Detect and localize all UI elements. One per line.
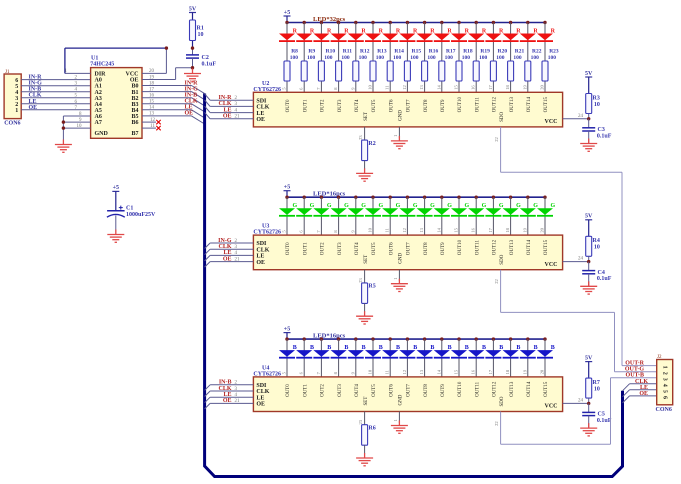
LED U3 row D6 (G) (382, 196, 400, 236)
svg-text:R16: R16 (429, 48, 439, 54)
svg-text:LED*16pcs: LED*16pcs (313, 191, 346, 198)
bus main (left vertical, bottom, right vertical) (205, 94, 623, 477)
svg-text:R12: R12 (360, 48, 370, 54)
svg-text:15: 15 (149, 100, 155, 105)
resistor R18 100 (456, 48, 473, 81)
svg-text:+5: +5 (284, 185, 290, 191)
LED U4 row D2 (B) (313, 337, 331, 377)
junction rail tap 8 (423, 337, 426, 340)
junction U2 VCC (587, 117, 590, 120)
svg-text:GND: GND (399, 110, 404, 121)
svg-text:OUT3: OUT3 (338, 99, 343, 112)
svg-text:10: 10 (368, 85, 373, 90)
svg-text:CLK: CLK (256, 105, 269, 111)
junction rail tap 12 (492, 21, 495, 24)
svg-text:100: 100 (462, 55, 471, 61)
svg-text:0.1uF: 0.1uF (597, 276, 612, 282)
svg-text:100: 100 (341, 55, 350, 61)
svg-text:OE: OE (639, 391, 648, 397)
svg-text:14: 14 (436, 85, 441, 90)
svg-text:24: 24 (578, 398, 584, 403)
wire U3 pin24 VCC (563, 257, 589, 262)
svg-text:100: 100 (307, 55, 316, 61)
svg-text:R15: R15 (412, 48, 422, 54)
svg-text:VCC: VCC (126, 72, 139, 78)
svg-text:A6: A6 (95, 114, 102, 120)
LED U2 row D11 (R) (468, 21, 487, 93)
resistor R9 100 (301, 48, 315, 81)
junction rail tap 9 (440, 337, 443, 340)
svg-text:24: 24 (578, 114, 584, 119)
wire U1 pin20 VCC to 5V rail (142, 48, 166, 74)
power +5 (C1) (112, 185, 119, 211)
svg-text:IN-G: IN-G (185, 86, 199, 92)
LED U3 row D13 (G) (503, 196, 521, 236)
svg-text:OUT0: OUT0 (286, 242, 291, 255)
svg-text:OUT13: OUT13 (510, 97, 515, 113)
wire U3 pin 21 OE branch from bus (205, 256, 254, 267)
resistor R21 100 (508, 48, 525, 81)
wire U3 SDO 22 to OUT-G (494, 270, 657, 372)
svg-text:OUT7: OUT7 (407, 99, 412, 112)
svg-text:A1: A1 (95, 84, 102, 90)
svg-text:B: B (516, 345, 520, 351)
svg-text:3: 3 (15, 96, 18, 102)
ground U2 GND (391, 136, 408, 149)
junction rail tap 13 (509, 337, 512, 340)
LED U2 row D12 (R) (485, 21, 504, 93)
svg-text:OE: OE (223, 256, 232, 262)
svg-text:11: 11 (385, 85, 390, 89)
svg-text:B: B (310, 345, 314, 351)
svg-text:R20: R20 (498, 48, 508, 54)
svg-text:21: 21 (235, 257, 241, 262)
svg-text:100: 100 (393, 55, 402, 61)
junction rail tap 0 (285, 21, 288, 24)
svg-text:19: 19 (149, 75, 155, 80)
svg-text:LE: LE (256, 111, 264, 117)
wire U1 pin1 DIR to 5V rail (65, 48, 167, 74)
resistor R4 10 (586, 236, 600, 261)
svg-text:B5: B5 (131, 114, 138, 120)
svg-text:B6: B6 (131, 120, 138, 126)
svg-text:SDI: SDI (256, 98, 267, 104)
svg-text:OUT6: OUT6 (389, 384, 394, 397)
junction rail tap 3 (337, 21, 340, 24)
svg-text:1000uF25V: 1000uF25V (126, 212, 156, 218)
svg-text:OUT7: OUT7 (407, 242, 412, 255)
svg-text:13: 13 (419, 85, 424, 90)
svg-text:OUT8: OUT8 (424, 99, 429, 112)
svg-text:CLK: CLK (218, 101, 231, 107)
ground C5 (580, 423, 597, 436)
svg-text:R: R (551, 29, 556, 35)
LED U3 row D5 (G) (365, 196, 383, 236)
pin U1 12 B6 no-connect (142, 118, 161, 124)
power +5 rail U3 section (284, 185, 546, 198)
wire U1 pin8 A6 to ground (63, 112, 90, 117)
junction rail tap 4 (354, 337, 357, 340)
svg-text:CLK: CLK (218, 386, 231, 392)
wire U1 pin17 B1 net IN-G to bus (142, 86, 205, 99)
svg-text:+5: +5 (284, 326, 290, 332)
LED U2 row D7 (R) (399, 21, 418, 93)
wire net IN-B (CON6 pin 4 to U1 pin 4) (21, 87, 90, 93)
svg-text:B: B (344, 345, 348, 351)
LED U4 row D8 (B) (417, 337, 435, 377)
svg-text:SDO: SDO (500, 112, 505, 122)
junction rail tap 12 (492, 337, 495, 340)
svg-text:22: 22 (494, 279, 499, 284)
svg-text:6: 6 (662, 396, 668, 399)
svg-text:0.1uF: 0.1uF (597, 418, 612, 424)
svg-text:R7: R7 (593, 380, 600, 386)
svg-text:C5: C5 (598, 412, 605, 418)
svg-text:LE: LE (185, 105, 193, 111)
svg-text:12: 12 (150, 118, 156, 123)
svg-text:SET: SET (364, 112, 369, 121)
svg-text:74HC245: 74HC245 (90, 62, 114, 68)
svg-text:18: 18 (505, 369, 510, 374)
svg-text:1: 1 (15, 108, 18, 114)
capacitor C4 0.1uF (582, 262, 612, 287)
svg-text:OUT10: OUT10 (458, 381, 463, 397)
svg-text:20: 20 (540, 369, 545, 374)
svg-text:10: 10 (368, 227, 373, 232)
svg-text:OUT12: OUT12 (493, 97, 498, 113)
svg-text:R22: R22 (532, 48, 542, 54)
ground U4 GND (391, 421, 408, 434)
wire U1 pin13 B5 net OE to bus (142, 111, 205, 124)
svg-text:B2: B2 (131, 96, 138, 102)
svg-text:OUT6: OUT6 (389, 99, 394, 112)
svg-text:R14: R14 (394, 48, 404, 54)
svg-text:CLK: CLK (635, 379, 648, 385)
wire CLK branch bus to J2 (623, 384, 657, 391)
junction U1 pin10 (62, 126, 65, 129)
LED U2 row D1 (R) (296, 21, 315, 93)
wire net OE (CON6 pin 1 to U1 pin 7) (21, 105, 90, 111)
capacitor C1 1000uF25V (polarized) (107, 206, 156, 230)
svg-text:2: 2 (662, 372, 668, 375)
junction rail tap 15 (543, 21, 546, 24)
svg-text:DIR: DIR (95, 72, 107, 78)
svg-text:OUT8: OUT8 (424, 242, 429, 255)
svg-text:10: 10 (594, 102, 600, 108)
junction R1/C2 (191, 46, 194, 55)
svg-text:R18: R18 (463, 48, 473, 54)
svg-text:100: 100 (445, 55, 454, 61)
ground R5 (356, 311, 373, 324)
junction rail tap 2 (320, 21, 323, 24)
svg-text:23: 23 (358, 135, 363, 140)
svg-text:OUT4: OUT4 (355, 242, 360, 255)
svg-text:5V: 5V (585, 214, 593, 220)
svg-text:16: 16 (471, 227, 476, 232)
LED U4 row D13 (B) (503, 337, 521, 377)
svg-text:22: 22 (494, 421, 499, 426)
svg-text:+5: +5 (284, 10, 290, 16)
svg-text:5V: 5V (585, 71, 593, 77)
svg-text:OUT0: OUT0 (286, 384, 291, 397)
resistor R7 10 (586, 378, 600, 403)
svg-text:B: B (551, 345, 555, 351)
resistor R10 100 (318, 48, 335, 81)
svg-text:20: 20 (540, 85, 545, 90)
connector J1 CON6 (4, 70, 21, 127)
capacitor C5 0.1uF (582, 403, 612, 428)
svg-text:OUT3: OUT3 (338, 384, 343, 397)
svg-text:B: B (534, 345, 538, 351)
svg-text:IN-B: IN-B (219, 380, 232, 386)
svg-text:CON6: CON6 (656, 407, 672, 413)
svg-text:10: 10 (77, 124, 83, 129)
svg-text:R6: R6 (368, 426, 375, 432)
power 5V (R1) (189, 6, 197, 20)
junction rail tap 7 (406, 21, 409, 24)
svg-text:OUT15: OUT15 (544, 381, 549, 397)
svg-text:OUT10: OUT10 (458, 239, 463, 255)
svg-text:100: 100 (290, 55, 299, 61)
LED U2 row D6 (R) (382, 21, 401, 93)
svg-text:SDO: SDO (500, 396, 505, 406)
wire LE branch bus to J2 (623, 390, 657, 397)
svg-text:10: 10 (198, 32, 204, 38)
power +5 rail U4 section (284, 326, 546, 339)
LED U4 row D6 (B) (382, 337, 400, 377)
resistor R2 (SET) (362, 140, 376, 169)
svg-text:R1: R1 (197, 26, 204, 32)
svg-text:OUT9: OUT9 (441, 99, 446, 112)
wire U2 pin 21 OE branch from bus (205, 112, 254, 119)
junction rail tap 2 (320, 337, 323, 340)
svg-text:G: G (550, 203, 555, 209)
svg-text:OUT13: OUT13 (510, 381, 515, 397)
LED U2 row D5 (R) (365, 21, 384, 93)
junction rail tap 14 (526, 337, 529, 340)
LED U2 row D10 (R) (451, 21, 470, 93)
LED U2 row D4 (R) (348, 21, 367, 93)
svg-text:LED*32pcs: LED*32pcs (313, 16, 346, 23)
svg-text:R10: R10 (326, 48, 336, 54)
resistor R12 100 (353, 48, 370, 81)
svg-text:1: 1 (393, 135, 398, 137)
svg-text:18: 18 (149, 81, 155, 86)
svg-text:100: 100 (513, 55, 522, 61)
wire U4 pin 3 CLK branch from bus (205, 386, 254, 397)
svg-text:17: 17 (488, 369, 493, 374)
svg-text:19: 19 (522, 369, 527, 374)
op U3 CYT62726 LED driver (253, 224, 562, 270)
op U4 CYT62726 LED driver (253, 365, 562, 411)
wire U1 pin19 OE to ground net (142, 68, 193, 81)
LED U2 row D2 (R) (313, 21, 332, 93)
ground U1 (55, 140, 72, 153)
svg-text:OE: OE (185, 111, 194, 117)
LED U4 row D4 (B) (348, 337, 366, 377)
wire U2 SDO 22 to OUT-R (494, 127, 657, 366)
resistor R17 100 (439, 48, 456, 81)
svg-text:B: B (482, 345, 486, 351)
svg-text:OUT14: OUT14 (527, 239, 532, 255)
svg-text:LE: LE (640, 385, 648, 391)
svg-text:OUT3: OUT3 (338, 242, 343, 255)
svg-text:R3: R3 (593, 95, 600, 101)
LED U2 row D3 (R) (331, 21, 350, 93)
wire U1 pin16 B2 net IN-B to bus (142, 93, 205, 106)
junction rail tap 15 (543, 196, 546, 199)
power 5V (R3) (585, 71, 593, 94)
capacitor C2 0.1uF (186, 55, 216, 68)
LED U2 row D0 (R) (279, 21, 298, 93)
junction rail tap 6 (389, 196, 392, 199)
svg-text:11: 11 (385, 228, 390, 232)
svg-text:B0: B0 (131, 84, 138, 90)
svg-text:C1: C1 (126, 206, 133, 212)
svg-text:OUT11: OUT11 (475, 97, 480, 113)
ground R6 (356, 453, 373, 466)
junction rail tap 11 (475, 21, 478, 24)
LED U2 row D14 (R) (520, 21, 539, 93)
svg-text:R21: R21 (515, 48, 525, 54)
svg-text:OUT5: OUT5 (372, 242, 377, 255)
junction rail tap 13 (509, 21, 512, 24)
wire U1 pin18 B0 net IN-R to bus (142, 80, 205, 93)
LED U3 row D11 (G) (468, 196, 486, 236)
junction rail tap 11 (475, 196, 478, 199)
LED U4 row D10 (B) (451, 337, 469, 377)
svg-text:OUT9: OUT9 (441, 242, 446, 255)
power 5V (R4) (585, 214, 593, 237)
ground C3 (580, 139, 597, 152)
svg-text:B: B (327, 345, 331, 351)
LED U4 row D9 (B) (434, 337, 452, 377)
junction rail tap 0 (285, 196, 288, 199)
svg-text:4: 4 (662, 384, 668, 387)
svg-text:IN-R: IN-R (185, 80, 199, 86)
svg-text:R23: R23 (549, 48, 559, 54)
ground R2 (356, 168, 373, 181)
svg-text:OUT-R: OUT-R (625, 361, 644, 367)
svg-text:R5: R5 (368, 284, 375, 290)
LED U4 row D3 (B) (331, 337, 349, 377)
svg-text:CLK: CLK (185, 99, 198, 105)
junction rail tap 1 (303, 337, 306, 340)
svg-text:LE: LE (223, 107, 231, 113)
junction rail tap 5 (371, 21, 374, 24)
svg-text:B: B (448, 345, 452, 351)
pin U3 SET 23 (358, 270, 365, 283)
svg-text:SDI: SDI (256, 241, 267, 247)
svg-text:5V: 5V (585, 355, 593, 361)
svg-text:17: 17 (488, 227, 493, 232)
svg-text:OUT4: OUT4 (355, 99, 360, 112)
junction rail tap 3 (337, 337, 340, 340)
svg-text:OE: OE (256, 260, 265, 266)
svg-text:B7: B7 (131, 131, 138, 137)
svg-text:C4: C4 (598, 270, 605, 276)
LED U3 row D1 (G) (296, 196, 314, 236)
svg-text:19: 19 (522, 85, 527, 90)
svg-text:22: 22 (494, 137, 499, 142)
svg-text:OUT11: OUT11 (475, 240, 480, 256)
junction U3 VCC (587, 260, 590, 263)
svg-text:SDO: SDO (500, 254, 505, 264)
svg-text:12: 12 (402, 228, 407, 233)
svg-text:OUT14: OUT14 (527, 97, 532, 113)
svg-text:LE: LE (256, 254, 264, 260)
LED U4 row D7 (B) (399, 337, 417, 377)
svg-text:R19: R19 (480, 48, 490, 54)
svg-text:CLK: CLK (256, 247, 269, 253)
resistor R3 10 (586, 94, 600, 119)
svg-text:R13: R13 (377, 48, 387, 54)
resistor R16 100 (422, 48, 439, 81)
LED U3 row D0 (G) (279, 196, 297, 236)
svg-text:OE: OE (29, 105, 38, 111)
svg-text:100: 100 (359, 55, 368, 61)
svg-text:CLK: CLK (29, 93, 42, 99)
wire U1 pin15 B3 net CLK to bus (142, 99, 205, 112)
LED U4 row D1 (B) (296, 337, 314, 377)
svg-text:10: 10 (368, 369, 373, 374)
wire U3 pin 4 LE branch from bus (205, 250, 254, 261)
svg-text:SET: SET (364, 397, 369, 406)
svg-text:18: 18 (505, 85, 510, 90)
svg-text:17: 17 (488, 85, 493, 90)
resistor R23 100 (542, 48, 559, 81)
op U2 CYT62726 LED driver (253, 81, 562, 127)
ground C2 (184, 69, 201, 82)
svg-text:IN-R: IN-R (29, 75, 43, 81)
LED U3 row D10 (G) (451, 196, 469, 236)
op U1 74HC245 buffer (90, 55, 142, 138)
junction rail tap 1 (303, 196, 306, 199)
svg-text:IN-R: IN-R (219, 95, 233, 101)
svg-text:R9: R9 (308, 48, 315, 54)
pin U2 SET 23 (358, 127, 365, 140)
svg-text:OE: OE (223, 114, 232, 120)
resistor R14 100 (387, 48, 404, 81)
svg-text:16: 16 (149, 94, 155, 99)
capacitor C3 0.1uF (582, 119, 612, 144)
LED U2 row D9 (R) (434, 21, 453, 93)
svg-text:OUT12: OUT12 (493, 239, 498, 255)
svg-text:OUT2: OUT2 (321, 384, 326, 397)
junction rail tap 7 (406, 337, 409, 340)
svg-text:R11: R11 (343, 48, 352, 54)
svg-text:13: 13 (149, 112, 155, 117)
junction rail tap 8 (423, 196, 426, 199)
junction 5V rail / VCC (165, 46, 168, 49)
wire net LE (CON6 pin 2 to U1 pin 6) (21, 99, 90, 105)
svg-text:15: 15 (454, 227, 459, 232)
svg-text:100: 100 (548, 55, 557, 61)
svg-text:OUT11: OUT11 (475, 381, 480, 397)
svg-text:B: B (499, 345, 503, 351)
svg-text:+5: +5 (113, 185, 119, 191)
wire U2 pin24 VCC (563, 114, 589, 119)
LED U4 row D0 (B) (279, 337, 297, 377)
svg-text:B: B (413, 345, 417, 351)
resistor R11 100 (336, 48, 353, 81)
svg-text:OE: OE (256, 402, 265, 408)
pin U4 GND 1 (393, 412, 400, 424)
svg-text:OE: OE (223, 398, 232, 404)
svg-text:LE: LE (256, 395, 264, 401)
resistor R5 (SET) (362, 283, 376, 312)
svg-text:1: 1 (662, 366, 668, 369)
